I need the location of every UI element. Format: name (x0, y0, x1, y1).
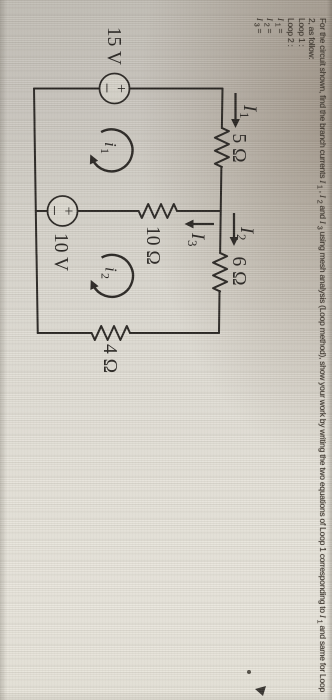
svg-text:4 Ω: 4 Ω (99, 344, 120, 373)
svg-text:1: 1 (98, 148, 112, 154)
resistor 5 ohm (215, 128, 229, 167)
svg-text:10 V: 10 V (50, 233, 71, 271)
resistor 10 ohm (139, 204, 177, 218)
svg-text:i: i (101, 142, 120, 147)
svg-text:−: − (43, 205, 64, 216)
polarity marks 10V source (43, 205, 77, 216)
mesh current loop i1 (90, 129, 133, 171)
mesh current loop i2 (90, 255, 133, 297)
label Loop 2 (287, 18, 297, 47)
wire left-upper segment (130, 88, 223, 90)
svg-text:10 Ω: 10 Ω (142, 226, 163, 265)
branch current arrow I3 (185, 220, 215, 229)
svg-text:6 Ω: 6 Ω (228, 256, 249, 285)
svg-text:2: 2 (234, 234, 249, 241)
polarity marks 15V source (96, 83, 130, 94)
voltage source 10V circle (48, 196, 78, 226)
problem statement line 2 (308, 18, 318, 60)
wire right-lower segment (38, 332, 92, 334)
wire left-lower segment (34, 88, 100, 90)
svg-text:3: 3 (185, 240, 200, 247)
wire right-upper segment (130, 332, 219, 334)
wire middle branch upper (177, 210, 221, 212)
wire top-left segment (221, 89, 224, 129)
label Loop 1 (297, 18, 307, 47)
svg-text:i: i (102, 267, 121, 272)
svg-text:2: 2 (99, 273, 113, 279)
svg-text:−: − (96, 83, 117, 94)
branch current arrow I2 (230, 213, 239, 246)
resistor 6 ohm (213, 253, 227, 291)
voltage source 15V circle (100, 74, 130, 104)
wire top-middle segment (220, 167, 221, 253)
svg-text:1: 1 (237, 112, 252, 119)
answer field I3 (251, 18, 265, 33)
resistor 4 ohm (92, 326, 130, 340)
mouse cursor (255, 686, 266, 696)
svg-text:15 V: 15 V (103, 27, 124, 65)
answer field I1 (272, 18, 286, 33)
svg-text:5 Ω: 5 Ω (228, 133, 249, 162)
dust speck (247, 670, 251, 674)
answer field I2 (262, 18, 276, 33)
branch current arrow I1 (231, 93, 240, 128)
wire top-right segment (218, 291, 221, 333)
wire middle branch lower (36, 210, 48, 212)
wire bottom (34, 89, 38, 334)
wire middle branch middle (78, 210, 139, 212)
problem statement line 1 (314, 18, 328, 692)
